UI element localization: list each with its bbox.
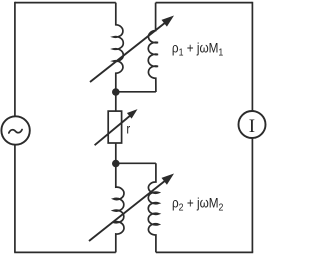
- inductor L1 left winding (top coupled pair): [113, 3, 123, 92]
- current meter I (circle): [239, 111, 266, 138]
- wire from node A to L2 bottom: [116, 91, 156, 93]
- inductor L4 right winding (bottom coupled pair): [148, 163, 158, 252]
- arrow through L1/L2 (variable coupling M1): [90, 21, 167, 82]
- node B junction dot: [112, 160, 120, 168]
- voltage source V1 tilde symbol: [9, 130, 22, 134]
- wire right-loop right side lower: [251, 138, 253, 253]
- label r: [126, 122, 130, 137]
- wire right-loop right side upper: [251, 2, 253, 111]
- node A junction dot: [112, 88, 120, 96]
- inductor L3 left winding (bottom coupled pair): [113, 164, 124, 253]
- wire node B to L4 top: [116, 162, 156, 164]
- svg-text:ρ1 + jωM1: ρ1 + jωM1: [172, 40, 223, 59]
- wire resistor r bottom to node B: [115, 143, 117, 164]
- wire left-loop bottom: [14, 251, 116, 253]
- wire left-loop left side upper: [14, 2, 16, 117]
- inductor L2 right winding (top coupled pair): [148, 3, 158, 92]
- wire left-loop left side lower: [14, 145, 16, 253]
- resistor r body: [108, 111, 121, 143]
- arrow through L3/L4 (variable coupling M2): [89, 180, 167, 241]
- wire left-loop top: [15, 2, 116, 4]
- arrow through resistor r (variable): [95, 115, 132, 146]
- label rho1 + j omega M1: [172, 40, 223, 59]
- wire right-loop bottom: [156, 251, 253, 253]
- wire node A to resistor r top: [115, 92, 117, 111]
- svg-text:ρ2 + jωM2: ρ2 + jωM2: [172, 195, 223, 214]
- wire right-loop top: [156, 2, 253, 4]
- svg-text:r: r: [126, 122, 130, 137]
- label rho2 + j omega M2: [172, 195, 223, 214]
- svg-text:I: I: [249, 116, 255, 137]
- voltage source V1 (AC source circle): [1, 116, 29, 144]
